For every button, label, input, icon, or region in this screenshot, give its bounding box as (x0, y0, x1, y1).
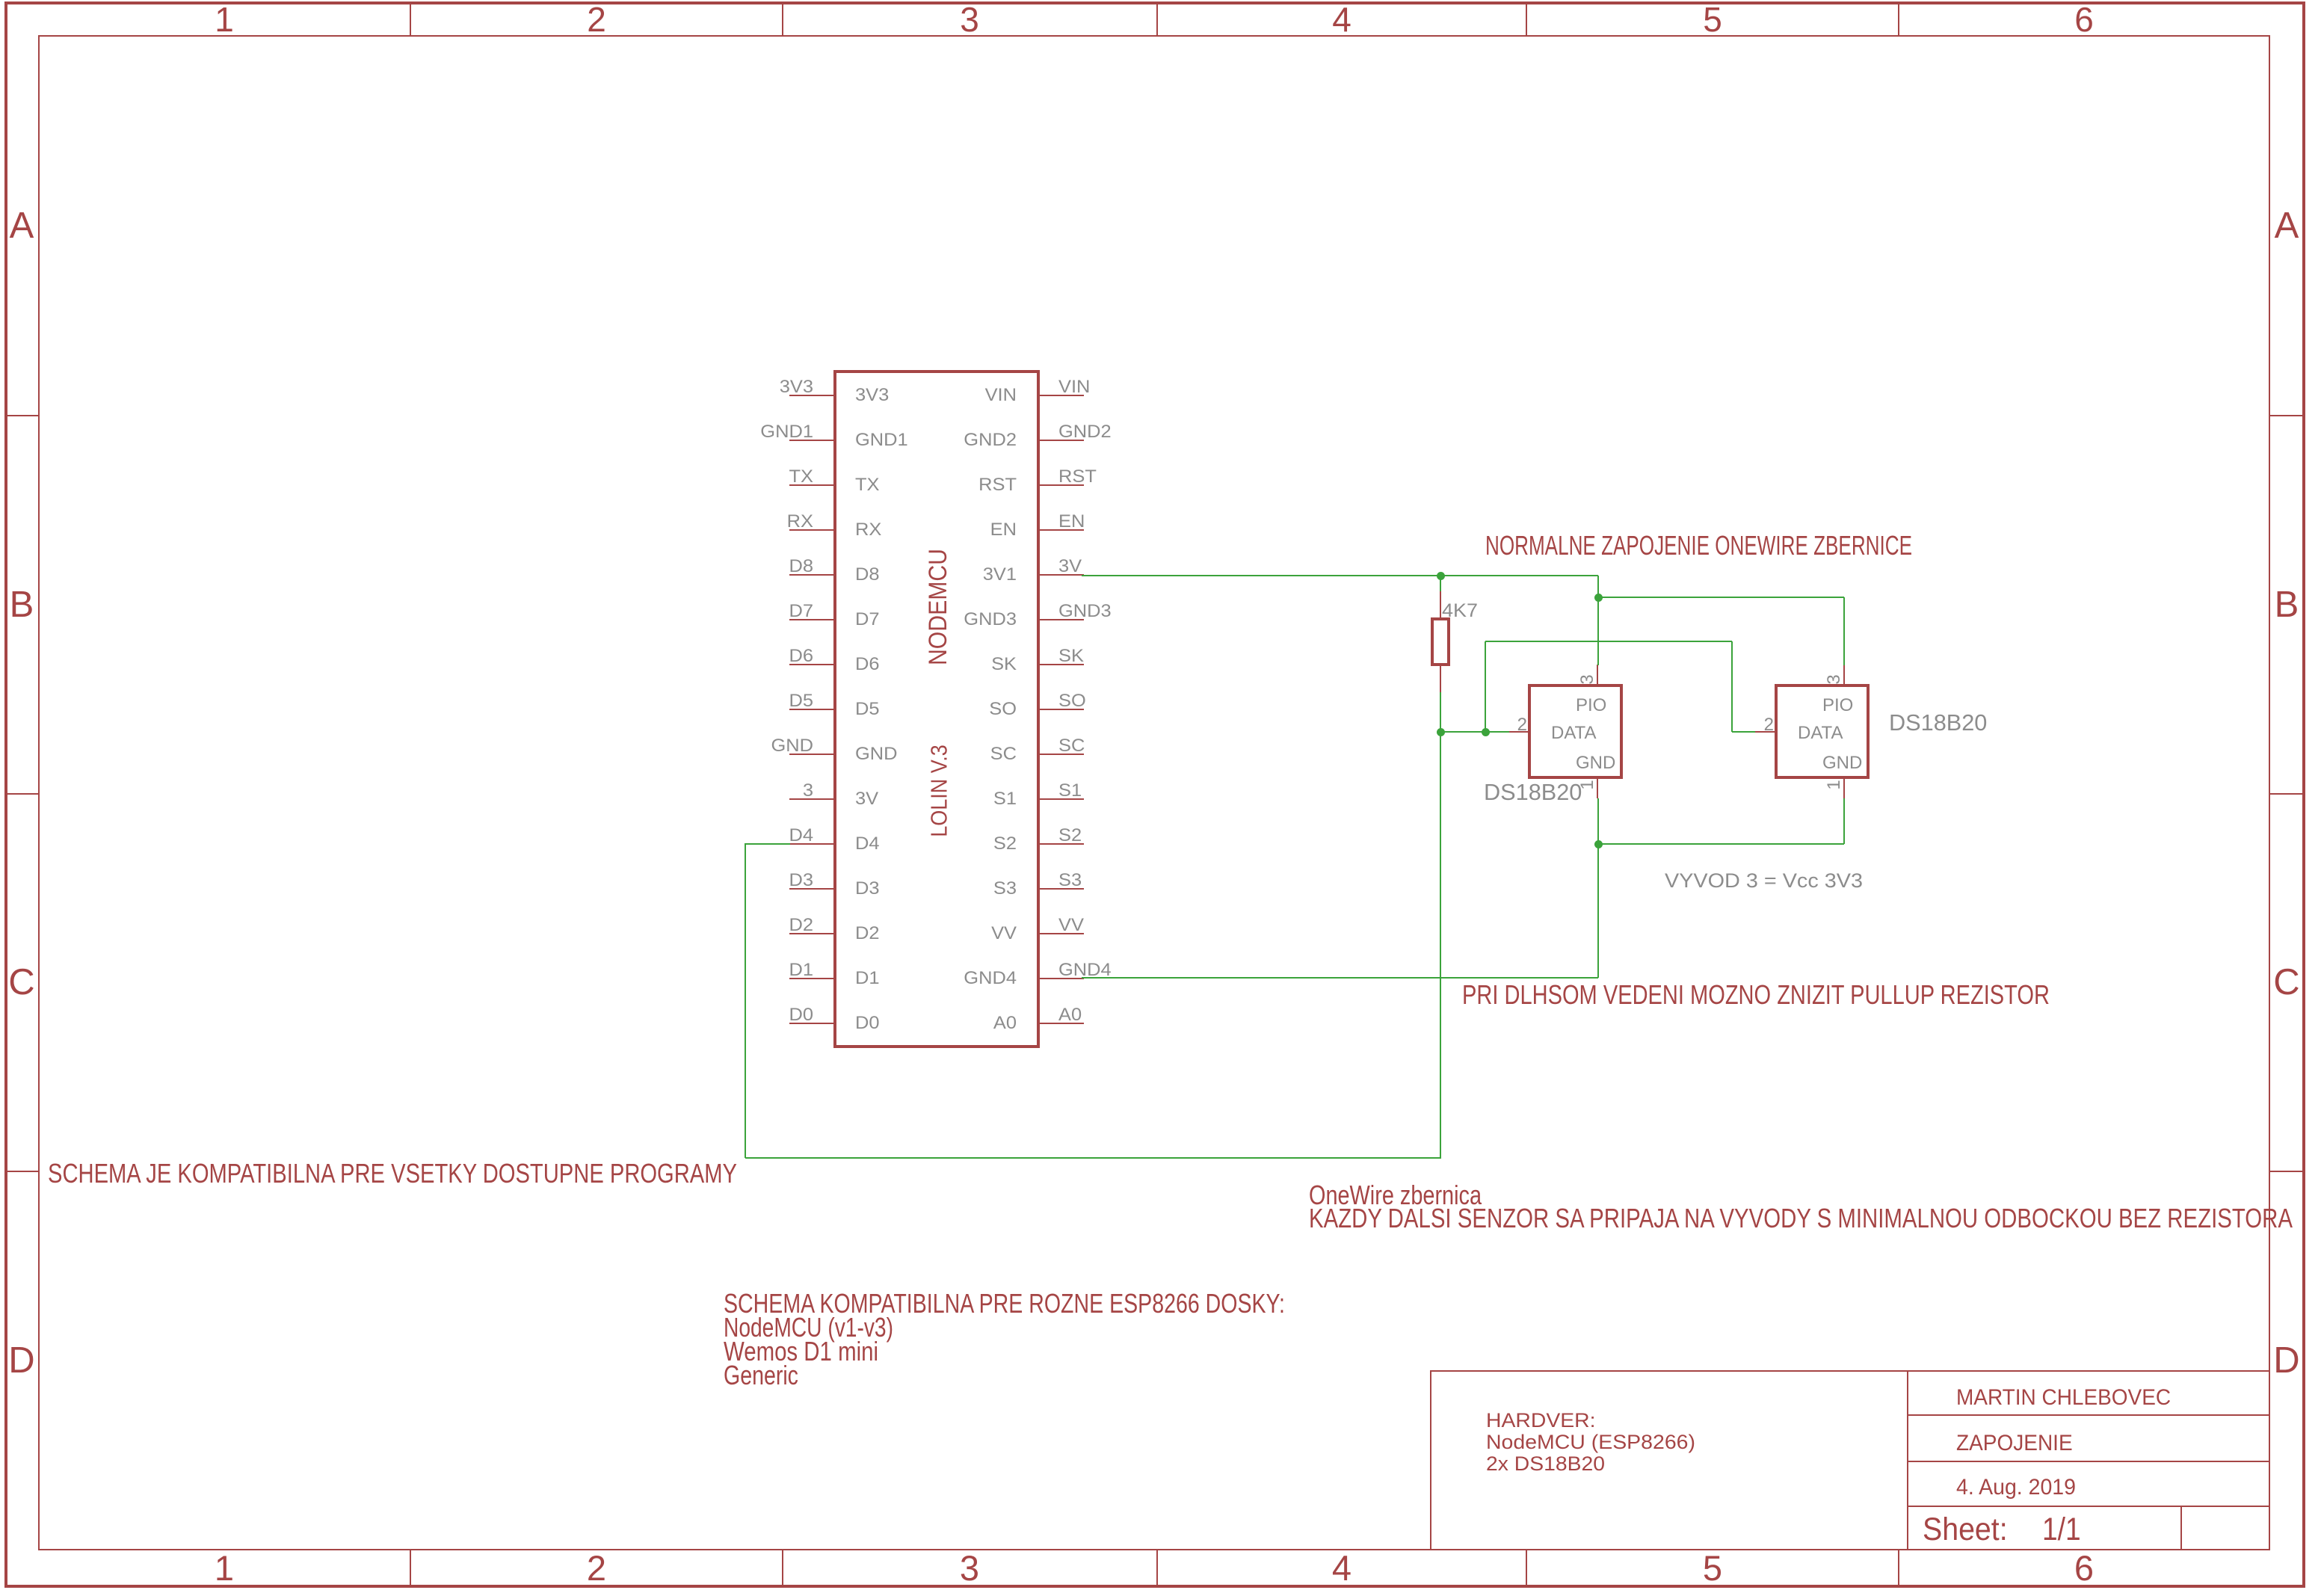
IC1 pin name GND (1576, 754, 1615, 772)
U1 pin RX (left, net RX) (0, 0, 1, 1)
title block author (1956, 1387, 2171, 1409)
wire DATA net to IC1 pin2 (0, 0, 1, 1)
U1 pin S2 (right, net S2) (0, 0, 1, 1)
U1 pin SC (right, net SC) (0, 0, 1, 1)
U1 pin 3V3 (left, net 3V3) (0, 0, 1, 1)
title block date (1956, 1476, 2076, 1499)
wire GND net IC2 pin1 down (0, 0, 1, 1)
U1 pin 3V1 (right, net 3V) (0, 0, 1, 1)
wire DATA net branch horizontal (0, 0, 1, 1)
wire DATA net to IC2 pin2 (0, 0, 1, 1)
IC2 pin 2 DATA stub (0, 0, 1, 1)
junction DATA branch (0, 0, 1, 1)
IC1 pin name DATA (1551, 724, 1596, 742)
resistor R1 4K7 body (0, 0, 1, 1)
IC2 pin number 1 (1825, 780, 1843, 789)
IC2 pin 1 GND stub (0, 0, 1, 1)
annotation: boards list (0, 0, 1, 1)
U1 pin GND1 (left, net GND1) (0, 0, 1, 1)
IC1 pin 3 PIO stub (0, 0, 1, 1)
wire 3V net branch horizontal to IC2 (0, 0, 1, 1)
sensor IC2 DS18B20 #2 body (0, 0, 1, 1)
U1 pin D6 (left, net D6) (0, 0, 1, 1)
U1 pin D2 (left, net D2) (0, 0, 1, 1)
U1 pin D0 (left, net D0) (0, 0, 1, 1)
U1 label NODEMCU (925, 549, 951, 665)
IC2 pin name DATA (1798, 724, 1843, 742)
wire GND net IC1 pin1 down (0, 0, 1, 1)
IC2 pin 3 PIO stub (0, 0, 1, 1)
junction 3V at resistor top (0, 0, 1, 1)
U1 pin D5 (left, net D5) (0, 0, 1, 1)
wire DATA net left vertical (0, 0, 1, 1)
annotation: schema compatibility note (48, 1160, 737, 1187)
wire 3V net vertical to IC1 pin3 (0, 0, 1, 1)
wire DATA net branch vertical down (0, 0, 1, 1)
title block document name (1956, 1432, 2073, 1455)
U1 pin GND3 (right, net GND3) (0, 0, 1, 1)
junction 3V branch to IC2 (0, 0, 1, 1)
frame row letters right (0, 0, 1, 1)
sensor IC1 DS18B20 #1 body (0, 0, 1, 1)
U1 pin D8 (left, net D8) (0, 0, 1, 1)
IC1 pin number 2 (1517, 716, 1527, 734)
annotation: onewire bus note (0, 0, 1, 1)
drawing frame (0, 0, 1, 1)
U1 pin VV (right, net VV) (0, 0, 1, 1)
junction DATA at resistor bottom (0, 0, 1, 1)
wire 3V net vertical to IC2 pin3 (0, 0, 1, 1)
IC2 pin name PIO (1822, 697, 1853, 715)
wire DATA net from U1 D4 (0, 0, 1, 1)
IC2 value label DS18B20 (1889, 711, 1987, 734)
IC1 pin name PIO (1576, 697, 1606, 715)
frame column numbers bottom (0, 0, 1, 1)
IC1 pin 2 DATA stub (0, 0, 1, 1)
IC1 value label DS18B20 (1484, 780, 1582, 804)
U1 pin GND2 (right, net GND2) (0, 0, 1, 1)
wire 3V net resistor top (0, 0, 1, 1)
U1 pin D3 (left, net D3) (0, 0, 1, 1)
title block frame (0, 0, 1, 1)
IC1 pin number 1 (1579, 780, 1597, 789)
U1 pin SK (right, net SK) (0, 0, 1, 1)
U1 pin SO (right, net SO) (0, 0, 1, 1)
title block hardware description text (0, 0, 1, 1)
title block sheet number (0, 0, 1, 1)
U1 pin 3V (left, net 3) (0, 0, 1, 1)
U1 pin GND (left, net GND) (0, 0, 1, 1)
IC1 pin number 3 (1579, 674, 1597, 684)
annotation: VYVOD 3 = Vcc 3V3 (1665, 871, 1863, 891)
U1 pin S3 (right, net S3) (0, 0, 1, 1)
U1 pin S1 (right, net S1) (0, 0, 1, 1)
U1 pin TX (left, net TX) (0, 0, 1, 1)
U1 pin A0 (right, net A0) (0, 0, 1, 1)
wire DATA net bottom horizontal (0, 0, 1, 1)
U1 pin D4 (left, net D4) (0, 0, 1, 1)
wire GND net vertical down (0, 0, 1, 1)
U1 pin D1 (left, net D1) (0, 0, 1, 1)
frame column numbers top (0, 0, 1, 1)
U1 label LOLIN V.3 (928, 745, 951, 836)
wire DATA net right vertical (0, 0, 1, 1)
resistor value 4K7 (1442, 602, 1478, 620)
U1 pin GND4 (right, net GND4) (0, 0, 1, 1)
wire DATA net branch vertical up (0, 0, 1, 1)
IC2 pin name GND (1822, 754, 1862, 772)
U1 pin D7 (left, net D7) (0, 0, 1, 1)
junction GND between sensors (0, 0, 1, 1)
IC1 pin 1 GND stub (0, 0, 1, 1)
frame row letters left (0, 0, 1, 1)
annotation: pullup note (1462, 982, 2050, 1008)
U1 pin EN (right, net EN) (0, 0, 1, 1)
IC2 pin number 2 (1764, 716, 1774, 734)
U1 pin VIN (right, net VIN) (0, 0, 1, 1)
U1 pin RST (right, net RST) (0, 0, 1, 1)
annotation: normalne zapojenie title (1485, 532, 1912, 559)
wire DATA net resistor bottom (0, 0, 1, 1)
wire 3V net horizontal from U1 3V1 (0, 0, 1, 1)
wire GND net horizontal to U1 GND4 (0, 0, 1, 1)
IC2 pin number 3 (1825, 674, 1843, 684)
IC U1 NODEMCU LOLIN V.3 body (0, 0, 1, 1)
wire GND net horizontal between sensors (0, 0, 1, 1)
